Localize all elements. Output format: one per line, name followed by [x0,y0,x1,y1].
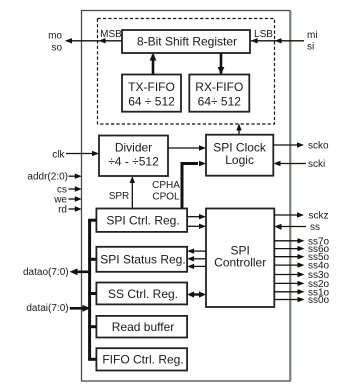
wire mo/so from shift register to pin [65,38,122,43]
svg-text:scki: scki [308,159,325,170]
svg-text:si: si [307,42,314,53]
svg-text:addr(2:0): addr(2:0) [27,172,68,183]
wire sckz output [274,212,304,217]
wire divider to SPI clock logic [168,145,206,150]
wire ss2o output [274,281,304,286]
dashed sub-module boundary [98,19,275,125]
svg-text:ss0o: ss0o [308,295,330,306]
bus stub to FIFO ctrl reg [88,358,96,361]
block: SPI Clock Logic [206,135,273,176]
block: SPI Ctrl. Reg. [96,209,187,232]
svg-text:CPHA: CPHA [152,180,180,191]
bus stub to SS ctrl reg [88,292,96,295]
svg-text:64÷ 512: 64÷ 512 [198,95,242,109]
svg-text:÷4 - ÷512: ÷4 - ÷512 [108,155,159,169]
bus stub to read buffer [88,325,96,328]
wire addr(2:0) input [69,174,82,179]
svg-text:Controller: Controller [214,255,266,269]
wire ss5o output [274,254,304,259]
svg-text:sckz: sckz [309,211,329,222]
svg-text:clk: clk [52,149,65,160]
wire cs input [69,186,82,191]
wire SPI clock logic to dashed boundary [236,124,241,135]
svg-text:TX-FIFO: TX-FIFO [128,80,175,94]
wire shift register to RX-FIFO [218,53,225,75]
wire ss3o output [274,272,304,277]
block: Divider [99,136,168,177]
svg-text:Logic: Logic [225,153,254,167]
svg-text:Divider: Divider [115,141,152,155]
svg-text:datao(7:0): datao(7:0) [23,267,69,278]
block: SPI Status Reg. [96,247,187,272]
block: TX-FIFO [122,75,181,112]
svg-text:FIFO Ctrl. Reg.: FIFO Ctrl. Reg. [102,353,183,367]
svg-text:LSB: LSB [254,29,273,40]
wire SPI ctrl reg to SPI controller (upper) [187,214,206,219]
wire SPI controller to status reg 2 [187,256,206,261]
svg-text:8-Bit Shift Register: 8-Bit Shift Register [137,35,237,49]
svg-text:MSB: MSB [100,29,122,40]
wire ss7o output [274,238,304,243]
wire ss1o output [274,289,304,294]
wire datai(7:0) input to bus [70,305,91,312]
svg-text:datai(7:0): datai(7:0) [26,303,68,314]
outer module box [82,11,292,382]
wire clk input to divider [66,151,99,156]
bus stub to SPI ctrl reg [88,219,96,222]
wire ss6o output [274,246,304,251]
wire ss4o output [274,262,304,267]
svg-text:rd: rd [58,205,67,216]
wire rd input [69,206,82,211]
wire SPR from SPI ctrl reg to divider [130,176,135,209]
svg-text:mi: mi [307,30,318,41]
block: SS Ctrl. Reg. [96,283,187,305]
wire mi/si into shift register [251,38,305,43]
wire ss0o output [274,297,304,302]
svg-text:scko: scko [308,141,329,152]
block: SPI Controller [206,209,274,308]
svg-text:SPI Ctrl. Reg.: SPI Ctrl. Reg. [106,214,179,228]
svg-text:mo: mo [48,31,62,42]
internal data bus (vertical) [88,219,91,361]
svg-text:SS Ctrl. Reg.: SS Ctrl. Reg. [108,287,178,301]
block: 8-Bit Shift Register U-SR [122,30,250,53]
svg-text:RX-FIFO: RX-FIFO [195,80,243,94]
block: RX-FIFO [189,75,249,112]
wire SPI ctrl reg to SPI controller (lower) [187,224,206,229]
wire datao(7:0) output from bus [70,268,92,275]
svg-text:SPI Status Reg.: SPI Status Reg. [100,253,185,267]
svg-text:64 ÷ 512: 64 ÷ 512 [128,95,175,109]
svg-text:SPR: SPR [109,191,130,202]
svg-text:Read buffer: Read buffer [112,320,175,334]
wire we input [69,196,82,201]
wire TX-FIFO to shift register [150,53,157,75]
block: Read buffer [96,316,187,338]
wire SPI controller to status reg 1 [187,248,206,253]
wire scko output [273,142,304,147]
wire CPHA/CPOL bus from SPI ctrl reg to clock logic [182,161,206,209]
svg-text:so: so [51,43,62,54]
wire SS ctrl reg to SPI controller (bidirectional) [187,291,206,297]
svg-text:ss: ss [310,222,320,233]
bus stub to SPI status reg [88,258,96,261]
wire scki input [274,161,307,166]
wire ss input [275,224,307,230]
svg-text:CPOL: CPOL [152,192,180,203]
block: FIFO Ctrl. Reg. [96,348,187,370]
wire SPI controller to status reg 3 [187,264,206,269]
